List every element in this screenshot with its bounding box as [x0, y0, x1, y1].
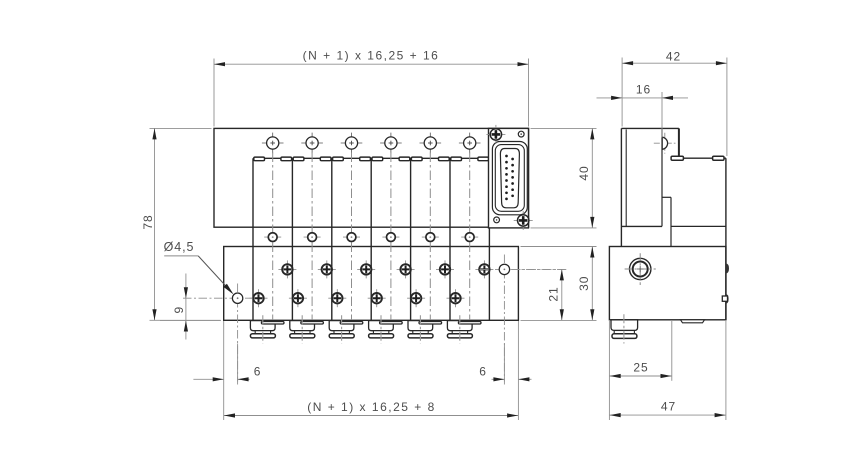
D-sub mounting screw bottom-right	[514, 219, 533, 221]
valve body edge 3	[331, 158, 333, 320]
dimension 6 right : arrows	[492, 378, 505, 380]
station 6: fitting centerline	[459, 315, 461, 343]
valve station 2: solenoid screw circle	[301, 142, 323, 144]
dimension 21 : extension line	[512, 268, 566, 270]
D-sub connector mounting plate	[489, 128, 529, 228]
station 6: front push-in fitting	[447, 321, 472, 331]
dimension 47 : dimension line	[609, 414, 726, 416]
side view: right side bump 2 with square	[726, 295, 728, 304]
station 4: front push-in fitting	[369, 321, 394, 331]
valve station 4: solenoid screw circle	[380, 142, 402, 144]
valve station 4: centerline	[390, 153, 392, 328]
station 3: upper mounting screw (cross recess)	[357, 268, 375, 270]
side view: valve bottom edge	[671, 225, 726, 227]
dimension 16 : dimension line with outside arrows	[597, 97, 663, 99]
svg-text:78: 78	[141, 214, 155, 229]
D-sub mounting screw top-left	[486, 133, 505, 135]
station 3: rear push-in fitting (top visible)	[340, 322, 363, 325]
valve station 1: pilot screw circle between plate and base	[264, 236, 281, 238]
station 5: lower mounting screw (cross recess)	[407, 297, 425, 299]
dimension 42 : extension lines	[621, 58, 623, 127]
dimension (N + 1) x 16,25 + 16 : dimension line	[214, 63, 529, 65]
svg-text:42: 42	[666, 50, 681, 64]
left end-plate hole Ø4,5	[232, 293, 242, 303]
side view: module internal vertical edge	[661, 128, 663, 226]
station 1: fitting centerline	[262, 315, 264, 343]
station 1: lower mounting screw (cross recess)	[250, 297, 268, 299]
side view: right side bump 1	[726, 264, 729, 273]
side view: electrical module outline	[621, 127, 679, 129]
valve body edge 1	[252, 158, 254, 320]
side view: step notch	[662, 196, 671, 198]
station 1: upper mounting screw (cross recess)	[278, 268, 296, 270]
side view: bottom push-in fitting	[611, 320, 638, 331]
D-sub small hole bottom-left	[494, 217, 500, 223]
dimension 40 : dimension line	[591, 128, 593, 228]
station 4: upper mounting screw (cross recess)	[397, 268, 415, 270]
dimension 9 extension line (shared with 78) at base bottom	[160, 319, 221, 321]
valve station 3: pilot screw circle between plate and base	[343, 236, 360, 238]
svg-text:30: 30	[577, 276, 591, 291]
side view: module right edge	[678, 128, 680, 156]
valve station 1: top clip tabs	[254, 157, 265, 161]
valve station 6: pilot screw circle between plate and base	[461, 236, 478, 238]
valve station 5: pilot screw circle between plate and base	[422, 236, 439, 238]
dimension 25 : extension lines	[608, 321, 610, 420]
station 2: front push-in fitting	[290, 321, 315, 331]
side view: manual override button (semicircle)	[654, 142, 676, 144]
station 6: lower mounting screw (cross recess)	[447, 297, 465, 299]
valve body edge 2	[291, 158, 293, 320]
svg-text:(N + 1) x 16,25 + 16: (N + 1) x 16,25 + 16	[303, 48, 440, 62]
svg-text:21: 21	[547, 286, 561, 301]
right end-plate hole	[499, 264, 509, 274]
dimension 47 : extension line right	[725, 321, 727, 420]
station 1: rear push-in fitting (top visible)	[261, 322, 284, 325]
station 5: upper mounting screw (cross recess)	[436, 268, 454, 270]
svg-text:6: 6	[479, 365, 487, 379]
dimension 6 right : extension lines	[517, 321, 519, 420]
station 1: front push-in fitting	[250, 321, 275, 331]
dimension 30 : extension lines	[521, 246, 597, 248]
valve station 3: centerline	[351, 153, 353, 328]
side view: supply port fitting (face-on circles)	[630, 258, 651, 279]
dimension (N + 1) x 16,25 + 8 : dimension line	[224, 415, 519, 417]
dimension 9 : dimension line with outside arrows	[185, 274, 187, 340]
dimension 78 : extension lines	[150, 127, 212, 129]
valve station 2: centerline	[311, 153, 313, 328]
dimension 25 : dimension line	[609, 375, 671, 377]
dimension 42 : dimension line	[622, 62, 727, 64]
station 2: lower mounting screw (cross recess)	[289, 297, 307, 299]
svg-text:9: 9	[172, 306, 186, 314]
valve body edge 5	[410, 158, 412, 320]
station 2: fitting centerline	[301, 315, 303, 343]
station 3: front push-in fitting	[329, 321, 354, 331]
valve body edge 4	[370, 158, 372, 320]
station 2: rear push-in fitting (top visible)	[301, 322, 324, 325]
svg-text:(N + 1) x 16,25 + 8: (N + 1) x 16,25 + 8	[307, 400, 436, 414]
dimension 6 left : extension line below hole	[223, 321, 225, 420]
station 5: front push-in fitting	[408, 321, 433, 331]
valve station 5: solenoid screw circle	[420, 142, 442, 144]
svg-text:Ø4,5: Ø4,5	[164, 240, 195, 254]
side view: module inner edge line	[625, 129, 627, 226]
valve row top edge	[253, 157, 489, 159]
valve station 3: solenoid screw circle	[341, 142, 363, 144]
D-sub pins column 2 (7 pins)	[511, 158, 514, 198]
side view: module bottom edge	[621, 225, 662, 227]
station 6: upper mounting screw (cross recess)	[475, 268, 493, 270]
station 4: fitting centerline	[380, 315, 382, 343]
valve station 4: top clip tabs	[372, 157, 383, 161]
manifold base block, front view	[224, 247, 519, 321]
dimension 78 : dimension line	[154, 128, 156, 320]
station 2: upper mounting screw (cross recess)	[318, 268, 336, 270]
manifold top plate (electrical interface plate), front view	[214, 128, 529, 227]
valve 6 right edge	[488, 227, 490, 320]
valve station 6: centerline	[469, 153, 471, 328]
right end-plate hole centerlines	[480, 268, 567, 270]
D-sub connector shell inner	[495, 145, 524, 212]
side view: valve clip tabs	[671, 156, 683, 160]
valve body edge 6	[449, 158, 451, 320]
valve station 1: solenoid screw circle	[262, 142, 284, 144]
valve station 3: top clip tabs	[333, 157, 344, 161]
station 4: rear push-in fitting (top visible)	[380, 322, 403, 325]
dimension 21 : dimension line	[561, 269, 563, 320]
side view: fitting centerline	[623, 314, 625, 343]
svg-text:16: 16	[636, 83, 651, 97]
station 5: rear push-in fitting (top visible)	[419, 322, 442, 325]
svg-text:25: 25	[633, 360, 648, 374]
D-sub small hole top-right	[518, 131, 524, 137]
dimension 30 : dimension line	[591, 247, 593, 321]
station 3: lower mounting screw (cross recess)	[328, 297, 346, 299]
dimension 40 : extension lines	[531, 127, 597, 129]
valve station 2: top clip tabs	[293, 157, 304, 161]
left end-plate hole Ø4,5 centerlines	[183, 297, 253, 299]
side view: valve top edge	[683, 157, 726, 159]
valve station 1: centerline	[272, 153, 274, 328]
svg-text:47: 47	[661, 399, 676, 413]
station 4: lower mounting screw (cross recess)	[368, 297, 386, 299]
dimension 6 left : arrows	[193, 378, 223, 380]
valve station 6: top clip tabs	[451, 157, 462, 161]
D-sub pins column 1 (8 pins)	[505, 155, 508, 201]
valve station 4: pilot screw circle between plate and base	[382, 236, 399, 238]
valve station 6: solenoid screw circle	[459, 142, 481, 144]
D-sub connector face (D shape)	[500, 149, 519, 208]
station 6: rear push-in fitting (top visible)	[458, 322, 481, 325]
D-sub connector shell outer	[492, 142, 527, 215]
valve station 5: centerline	[429, 153, 431, 328]
valve station 5: top clip tabs	[411, 157, 422, 161]
side view: bottom connector tab	[681, 320, 705, 323]
svg-text:6: 6	[254, 365, 262, 379]
station 3: fitting centerline	[341, 315, 343, 343]
side view: base block	[609, 247, 726, 320]
station 5: fitting centerline	[419, 315, 421, 343]
svg-text:40: 40	[577, 165, 591, 180]
side view: valve right edge	[725, 158, 727, 320]
dimension (N + 1) x 16,25 + 16 : extension lines	[213, 59, 215, 127]
valve station 2: pilot screw circle between plate and base	[304, 236, 321, 238]
dimension 16 extension line to override button	[661, 92, 663, 138]
